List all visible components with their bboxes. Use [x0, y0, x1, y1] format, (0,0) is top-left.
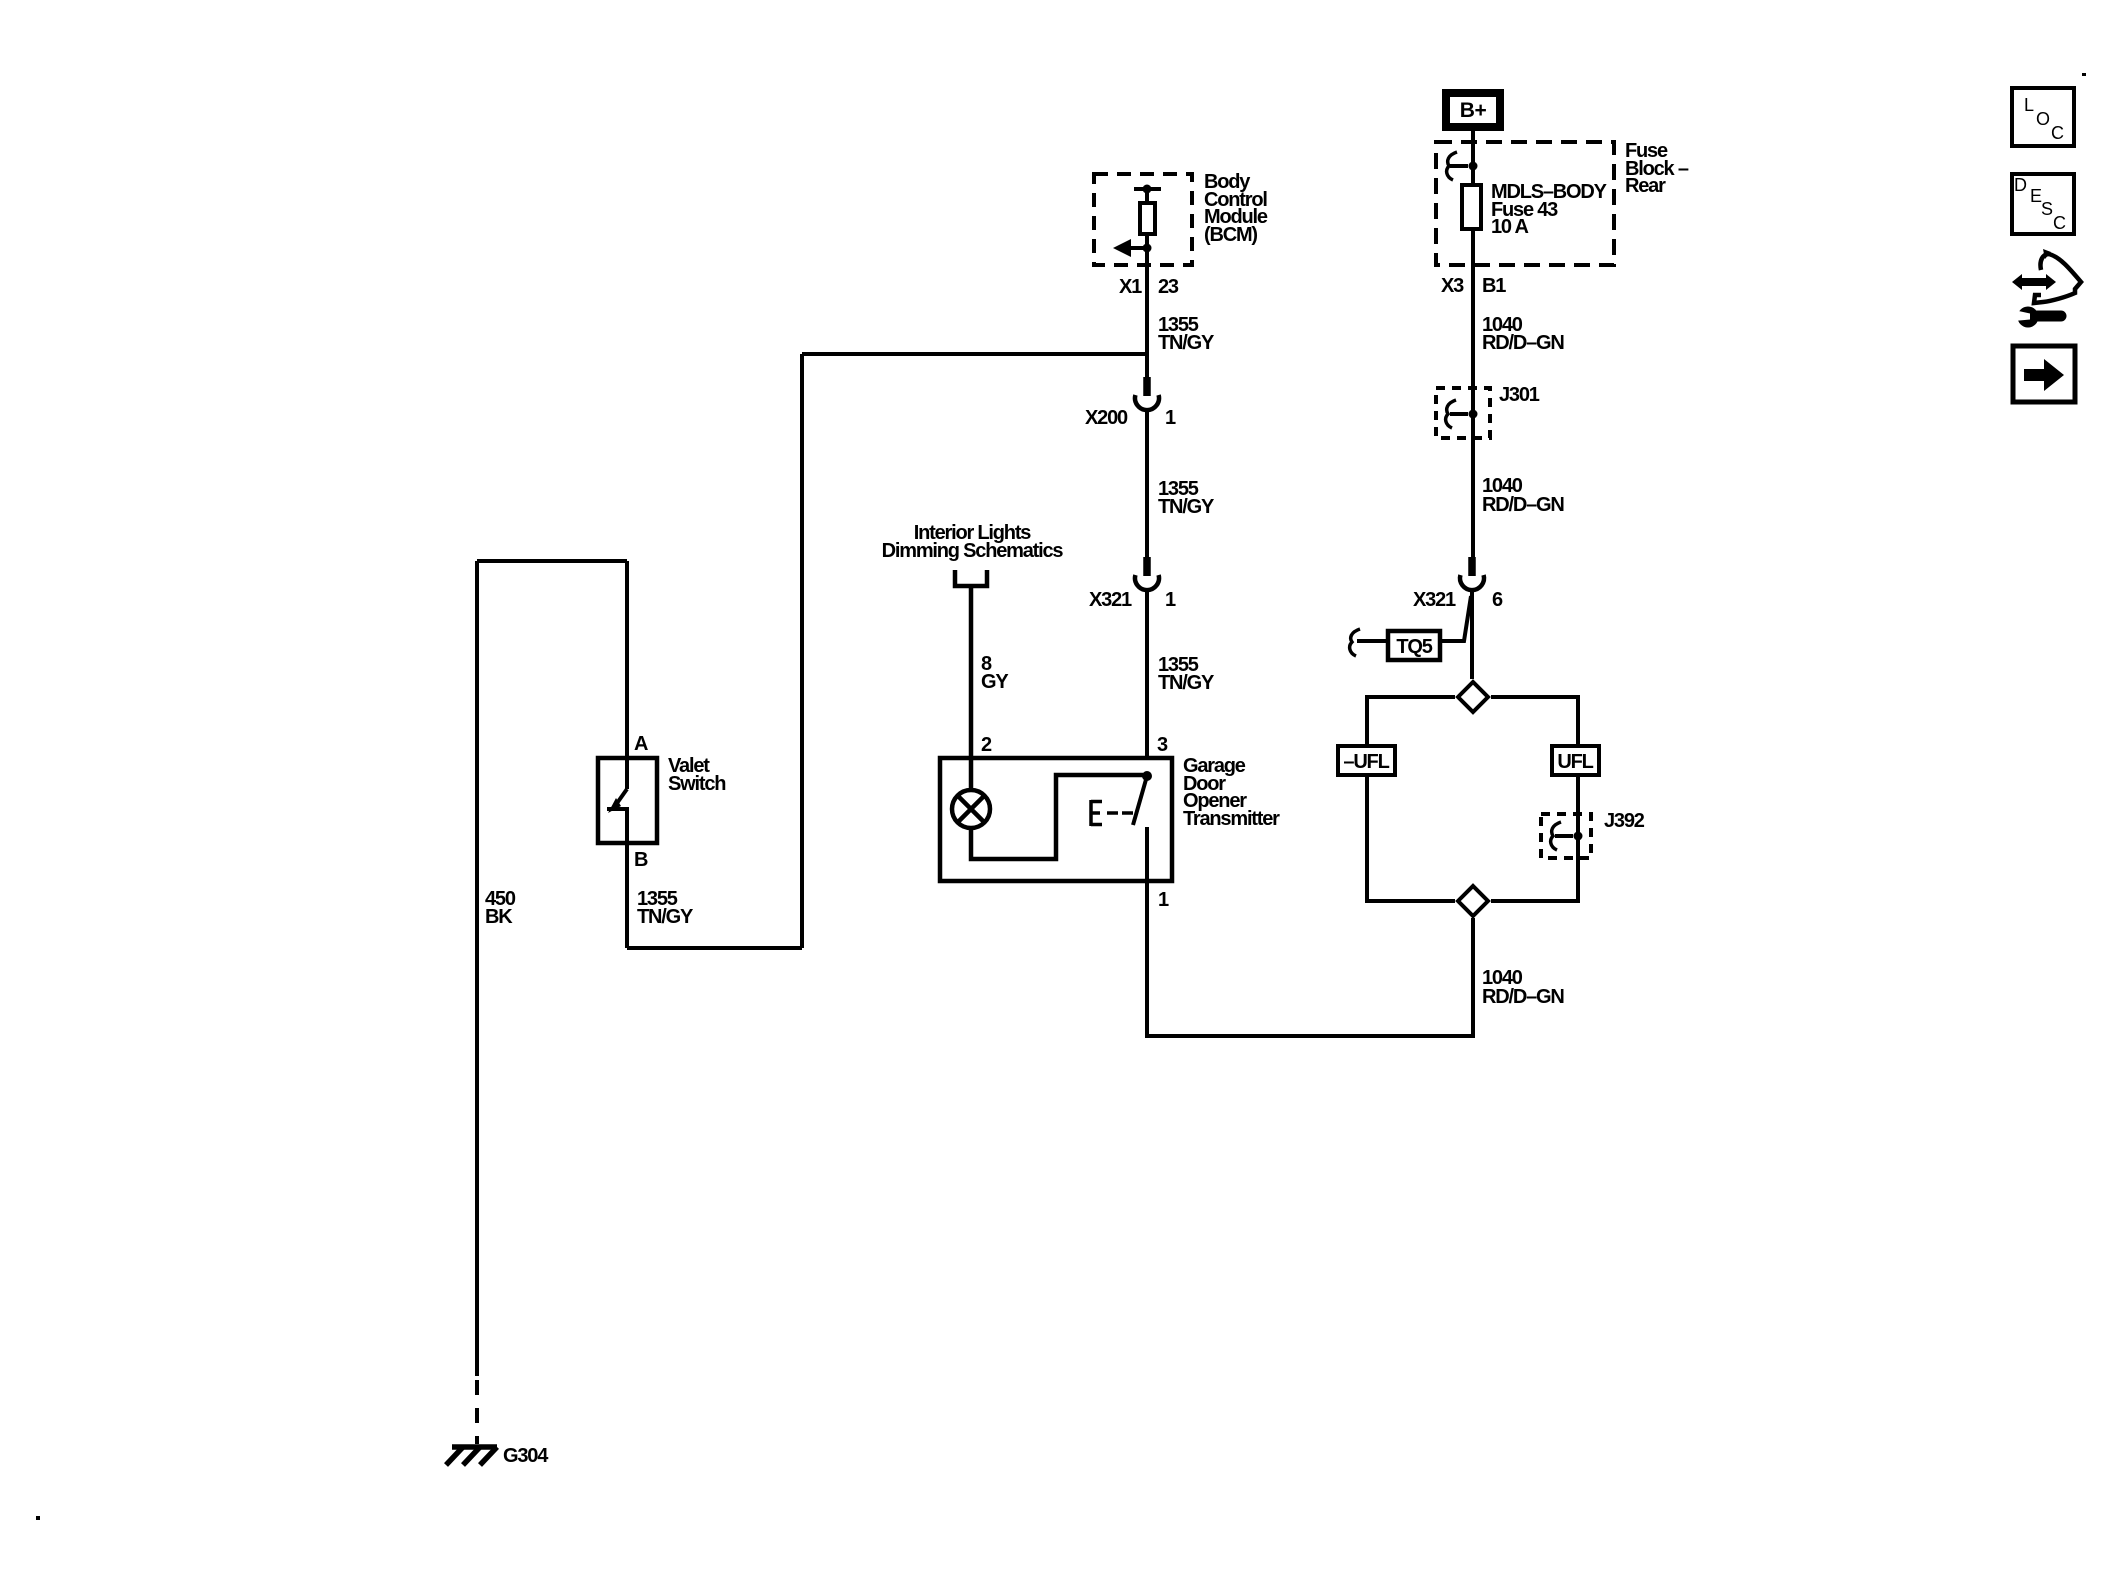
wire valet pin A	[625, 561, 629, 756]
wire valet pin B	[625, 843, 629, 948]
valet switch box	[598, 758, 657, 843]
svg-text:J301: J301	[1499, 384, 1540, 406]
valet switch blade	[625, 758, 629, 789]
lamp wires	[971, 756, 1143, 859]
wire -UFL down	[1367, 777, 1455, 901]
svg-text:X1: X1	[1119, 276, 1142, 298]
TQ5 box	[1388, 631, 1440, 660]
svg-text:G304: G304	[503, 1445, 549, 1467]
svg-text:23: 23	[1158, 276, 1179, 298]
lamp	[952, 790, 990, 828]
fuse block rear dashed box	[1436, 142, 1614, 265]
J301 clip	[1446, 400, 1456, 428]
svg-text:C: C	[2053, 213, 2066, 233]
TQ5 left wire	[1357, 639, 1386, 643]
switch junction dot	[1142, 771, 1152, 781]
wire diamond right branch	[1491, 697, 1578, 744]
off-page connector bracket	[955, 570, 987, 586]
speck bottom left	[36, 1516, 40, 1520]
svg-text:TN/GY: TN/GY	[637, 906, 694, 928]
svg-text:Dimming Schematics: Dimming Schematics	[882, 540, 1064, 562]
connector X321-1 stub	[1143, 557, 1151, 576]
connector X200 arc	[1135, 395, 1159, 410]
BCM internal element	[1140, 203, 1155, 234]
switch contact	[1145, 827, 1149, 883]
svg-text:X321: X321	[1089, 589, 1132, 611]
wire UFL down	[1491, 777, 1578, 901]
svg-text:1: 1	[1165, 407, 1176, 429]
svg-text:TN/GY: TN/GY	[1158, 332, 1215, 354]
BCM internal arrow	[1128, 246, 1147, 250]
wire 450 BK dashed to ground	[475, 1380, 479, 1444]
svg-text:J392: J392	[1604, 810, 1645, 832]
wire X200 to X321	[1145, 410, 1149, 557]
switch blade	[1133, 776, 1147, 825]
svg-text:A: A	[634, 733, 648, 755]
wire garage pin1 bottom	[1147, 883, 1473, 1036]
wire to BCM branch horizontal	[802, 352, 1147, 356]
svg-text:BK: BK	[485, 906, 513, 928]
speck top right	[2082, 73, 2086, 76]
J301 dashed box	[1436, 388, 1490, 438]
nav arrow	[2024, 369, 2045, 381]
svg-text:D: D	[2014, 175, 2027, 195]
wire 450 BK vertical	[475, 561, 479, 1376]
svg-text:B: B	[634, 849, 648, 871]
BCM wire X1-23	[1145, 189, 1149, 377]
wire valet right vertical	[800, 354, 804, 948]
svg-text:Switch: Switch	[668, 773, 725, 795]
svg-text:B1: B1	[1482, 275, 1506, 297]
svg-text:RD/D–GN: RD/D–GN	[1482, 494, 1564, 516]
ground G304	[446, 1447, 497, 1465]
B+ box	[1446, 93, 1500, 127]
valet switch contact	[607, 809, 627, 843]
repair icon double arrow	[2012, 249, 2081, 328]
svg-text:–UFL: –UFL	[1343, 751, 1389, 773]
fuse block clip	[1447, 152, 1457, 180]
nav arrow box	[2013, 346, 2075, 402]
J392 clip	[1551, 822, 1561, 850]
svg-text:L: L	[2024, 95, 2034, 115]
svg-text:X321: X321	[1413, 589, 1456, 611]
connector X321-1 arc	[1135, 575, 1159, 590]
wire X321-6 down	[1470, 590, 1474, 679]
svg-text:O: O	[2036, 109, 2050, 129]
svg-text:Rear: Rear	[1625, 175, 1666, 197]
repair icon wrench	[2018, 307, 2039, 328]
svg-text:10 A: 10 A	[1491, 216, 1528, 238]
connector X200 stub	[1143, 377, 1151, 396]
-UFL box	[1338, 746, 1395, 775]
svg-text:1: 1	[1165, 589, 1176, 611]
wire 8 GY	[969, 588, 974, 756]
BCM internal top bar	[1134, 187, 1161, 191]
J392 dashed box	[1541, 814, 1591, 858]
svg-text:UFL: UFL	[1557, 751, 1593, 773]
wire X321 to garage pin 3	[1145, 590, 1149, 756]
wire top horizontal valet A	[477, 559, 627, 563]
connector X321-6 stub	[1468, 557, 1476, 576]
E driver symbol	[1091, 800, 1133, 826]
BCM dashed box	[1094, 174, 1192, 265]
svg-text:2: 2	[981, 734, 992, 756]
splice diamond top	[1458, 682, 1488, 712]
svg-text:X200: X200	[1085, 407, 1128, 429]
repair icon squiggle	[2034, 254, 2081, 303]
svg-text:1: 1	[1158, 889, 1169, 911]
splice diamond bottom	[1458, 886, 1488, 916]
svg-text:TN/GY: TN/GY	[1158, 672, 1215, 694]
TQ5 clip	[1350, 629, 1360, 656]
svg-text:TQ5: TQ5	[1396, 636, 1432, 658]
wire valet B horizontal	[627, 946, 802, 950]
svg-text:GY: GY	[981, 671, 1009, 693]
svg-text:Transmitter: Transmitter	[1183, 808, 1280, 830]
wire B+ to fuse	[1471, 131, 1475, 557]
garage door opener transmitter box	[940, 758, 1172, 881]
svg-text:3: 3	[1157, 734, 1168, 756]
svg-text:C: C	[2051, 123, 2064, 143]
fuse MDLS-BODY 43	[1462, 185, 1481, 229]
svg-text:B+: B+	[1460, 99, 1487, 122]
BCM internal junction dot	[1143, 244, 1152, 253]
DESC box	[2012, 174, 2074, 234]
wire diamond left branch	[1367, 697, 1455, 744]
TQ5 right wire	[1442, 596, 1471, 641]
connector X321-6 arc	[1460, 575, 1484, 590]
svg-text:RD/D–GN: RD/D–GN	[1482, 332, 1564, 354]
BCM internal top dot	[1143, 185, 1152, 194]
LOC box	[2012, 88, 2074, 146]
svg-text:RD/D–GN: RD/D–GN	[1482, 986, 1564, 1008]
svg-text:X3: X3	[1441, 275, 1464, 297]
svg-text:TN/GY: TN/GY	[1158, 496, 1215, 518]
svg-text:6: 6	[1492, 589, 1503, 611]
svg-text:S: S	[2041, 199, 2053, 219]
svg-text:(BCM): (BCM)	[1204, 224, 1257, 246]
UFL box	[1552, 746, 1599, 775]
